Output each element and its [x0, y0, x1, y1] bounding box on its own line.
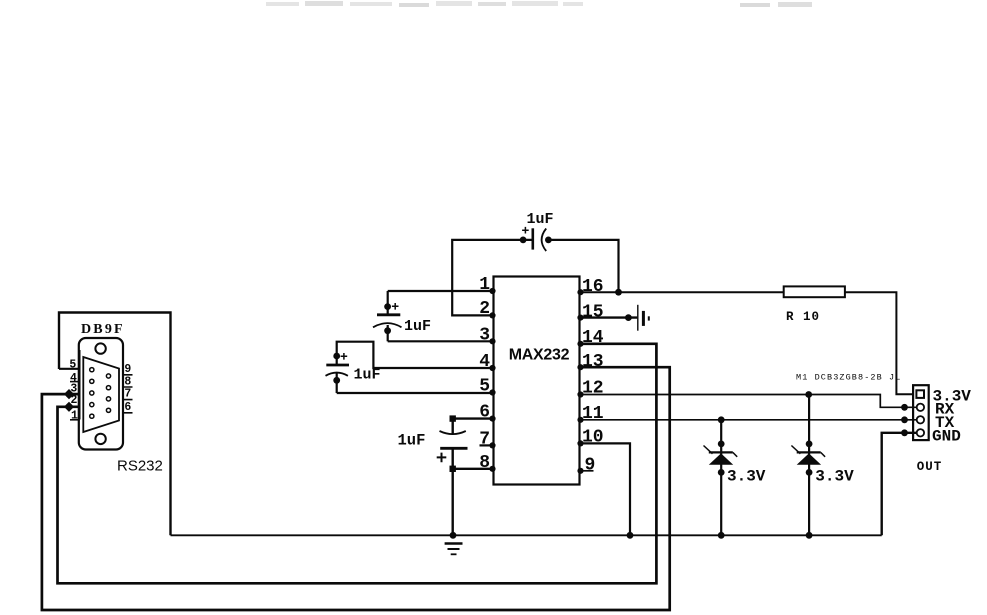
wire pin1 to C2 [388, 290, 494, 292]
svg-text:1uF: 1uF [354, 367, 381, 384]
svg-text:R 10: R 10 [786, 310, 820, 324]
wire pin16 to R10 [580, 291, 784, 293]
svg-text:3: 3 [479, 326, 490, 346]
wire C2 to pin3 [388, 340, 494, 342]
wire GND pin to ground bus [882, 433, 917, 536]
svg-text:1uF: 1uF [527, 211, 554, 228]
U1 left pin numbers [479, 275, 490, 473]
svg-text:8: 8 [479, 453, 490, 473]
wire pin7 stub [480, 444, 494, 446]
svg-text:11: 11 [582, 404, 604, 424]
svg-text:DB9F: DB9F [81, 322, 125, 337]
wire pin12 to RX [580, 395, 917, 408]
svg-text:GND: GND [932, 428, 961, 446]
resistor R10 [784, 286, 845, 297]
capacitor C3 1uF (pin4 to pin5) [326, 353, 350, 393]
zener diode D2 3.3V [791, 391, 825, 535]
wire pin15 to bypass stub [580, 316, 638, 318]
wire C1 right to pin16 line [547, 240, 619, 292]
U1 right pin numbers [582, 277, 604, 476]
wire pin14 loop to DB9 pin2 [58, 344, 657, 584]
wire C3 bottom to pin5 [337, 392, 494, 394]
shield box from DB9 shell to ground bus [59, 313, 171, 536]
wire R10 to 3.3V header pin [845, 292, 913, 394]
node junction C1/pin16 [615, 289, 622, 296]
svg-text:1uF: 1uF [404, 318, 431, 335]
node DB9 pin2 junction [64, 402, 74, 412]
wire pin2 up to C1 [452, 240, 532, 316]
header J2 OUT [913, 385, 929, 440]
U1 left pin contacts 1-8 [489, 288, 495, 472]
svg-text:6: 6 [124, 401, 131, 414]
wire pin11 to TX [580, 419, 917, 421]
svg-text:3.3V: 3.3V [727, 467, 766, 485]
svg-text:9: 9 [124, 363, 131, 376]
svg-text:1uF: 1uF [398, 431, 426, 449]
ground bus [171, 534, 882, 536]
IC U1 MAX232 body [494, 277, 580, 485]
node junction pin15 [625, 314, 632, 321]
svg-text:RS232: RS232 [117, 458, 163, 475]
capacitor C2 1uF (pin1 to pin3) [373, 291, 402, 341]
svg-text:9: 9 [585, 456, 596, 476]
svg-text:OUT: OUT [917, 460, 943, 474]
DB9 left pin numbers 5,4,3,2,1 with leads [59, 350, 80, 422]
svg-text:15: 15 [582, 303, 604, 323]
svg-text:16: 16 [582, 277, 604, 297]
svg-text:M1 DCB3ZGB8-2B JL: M1 DCB3ZGB8-2B JL [796, 373, 901, 383]
DB9 right pin numbers 9,8,7,6 with ticks [123, 354, 132, 416]
zener diode D1 3.3V [704, 416, 738, 535]
svg-text:3.3V: 3.3V [815, 468, 854, 486]
wire pin9 stub [580, 470, 594, 472]
node junctions at header [901, 404, 908, 436]
capacitor C4 1uF (pin6 to pin8/ground) [437, 415, 468, 535]
ground stub symbol at pin15 [638, 305, 649, 331]
svg-text:13: 13 [582, 352, 604, 372]
wire pin13 loop to DB9 pin3 [42, 367, 670, 610]
svg-text:5: 5 [69, 358, 76, 371]
ground symbol [445, 544, 463, 555]
wire pin6 to C4 [453, 419, 494, 434]
U1 right pin contacts 9-16 [577, 289, 583, 474]
svg-text:8: 8 [124, 375, 131, 388]
node junctions on ground bus [450, 532, 813, 539]
capacitor C1 1uF (pin2 to pin16/VCC) [520, 227, 552, 251]
svg-text:7: 7 [124, 388, 131, 401]
wire C4 to pin8 [453, 468, 494, 470]
node DB9 pin3 junction [64, 389, 74, 399]
svg-text:1: 1 [71, 409, 78, 422]
svg-text:12: 12 [582, 379, 604, 399]
connector J1 DB9F body [79, 338, 123, 450]
faint cropped caption text at top edge [266, 1, 812, 7]
wire C3 top to pin4 [337, 342, 494, 368]
wire pin10 to ground bus [580, 443, 631, 535]
svg-text:MAX232: MAX232 [509, 347, 570, 364]
